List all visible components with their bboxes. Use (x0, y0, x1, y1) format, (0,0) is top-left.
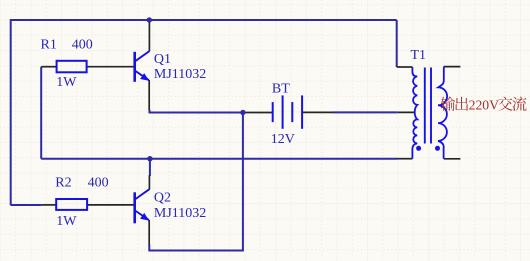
pin: R2 right lead to Q2 base (87, 204, 133, 206)
resistor R1 (57, 61, 87, 73)
pin: R2 left lead (42, 204, 57, 206)
transistor Q2 (135, 189, 150, 223)
transformer polarity dot (primary) (416, 146, 421, 151)
wire: drop to transformer primary top (396, 20, 398, 67)
svg-text:1W: 1W (56, 75, 77, 90)
svg-text:12V: 12V (271, 132, 295, 147)
wire: battery junction down to bottom rail (149, 113, 243, 251)
svg-text:400: 400 (88, 176, 109, 191)
pin: Q2 collector lead (148, 175, 150, 189)
svg-text:1W: 1W (56, 214, 77, 229)
pin: battery right lead (303, 111, 334, 113)
transformer T1 secondary winding (438, 67, 447, 159)
transformer T1 core (424, 68, 426, 144)
wire: mid rail (primary bottom feedback) (41, 158, 397, 160)
pin: R1 left lead (41, 66, 56, 68)
wire: battery right to transformer tap (333, 111, 398, 113)
svg-text:BT: BT (272, 82, 290, 97)
svg-text:Q1: Q1 (154, 52, 171, 67)
svg-text:Q2: Q2 (154, 191, 171, 206)
svg-text:MJ11032: MJ11032 (154, 67, 206, 82)
pin: Q1 collector lead (148, 20, 150, 51)
pin: R1 right lead to Q1 base (87, 66, 134, 68)
svg-text:400: 400 (72, 38, 93, 53)
transformer polarity dot (secondary) (435, 146, 440, 151)
wire: R1 left vertical to mid rail (40, 67, 42, 159)
output net label: 输出220V交流 (red) (441, 97, 527, 113)
svg-text:T1: T1 (411, 48, 427, 63)
junction node: battery negative (240, 110, 245, 115)
wire: Q1 emitter to battery junction (150, 110, 243, 113)
pin: transformer secondary bottom lead (444, 158, 461, 160)
pin: battery left lead (243, 112, 272, 114)
svg-text:220V: 220V (469, 97, 500, 112)
svg-text:MJ11032: MJ11032 (154, 206, 206, 221)
svg-text:R2: R2 (55, 176, 71, 191)
pin: Q2 emitter lead (148, 220, 150, 245)
resistor R2 (56, 199, 87, 210)
wire: top rail from left corner to transformer drop (11, 20, 397, 205)
pin: Q1 emitter lead (148, 80, 150, 111)
battery BT (273, 95, 302, 128)
pin: transformer secondary top lead (444, 66, 461, 68)
junction node: top rail / Q1 collector (147, 17, 152, 22)
wire: mid-rail stub at Q2 collector (149, 159, 151, 176)
pin: transformer primary centre-tap lead (398, 111, 415, 113)
svg-text:R1: R1 (41, 38, 57, 53)
pin: transformer primary bottom lead (398, 158, 413, 160)
transistor Q1 (135, 51, 150, 82)
junction node: mid rail / Q2 collector (147, 156, 152, 161)
wire: R2 row from left rail (11, 204, 42, 206)
transformer T1 primary winding (412, 67, 417, 159)
pin: transformer primary top lead (397, 66, 413, 68)
